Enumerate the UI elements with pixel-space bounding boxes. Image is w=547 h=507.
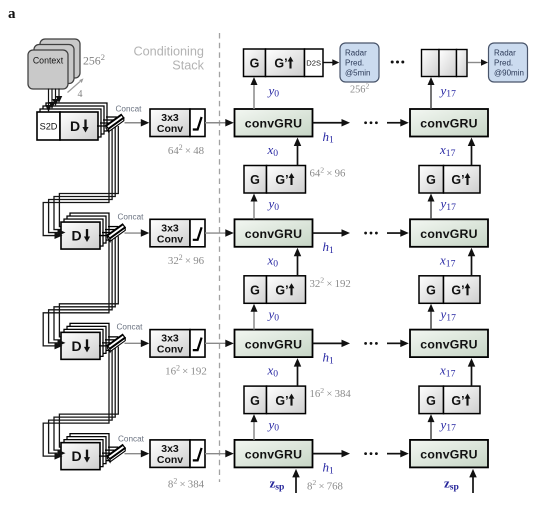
convGRU L1 [235,109,313,137]
relu box row 3 [190,330,205,358]
concat connector row 1 [106,114,124,131]
svg-text:@90min: @90min [494,69,524,78]
concat connector row 3 [107,334,125,351]
svg-text:G’: G’ [275,284,288,298]
stub wires stack 3 to concat [99,337,118,346]
y arrow R row 1 [428,77,435,109]
svg-text:convGRU: convGRU [245,227,302,241]
wire bundle from stack 2 to stack 3 [43,236,118,346]
svg-text:G’: G’ [451,284,464,298]
z_sp arrow L [292,469,300,493]
G-prime-up box R pair 2 [444,276,481,304]
D2S box [305,49,324,77]
downsampler stack row 4 back copies [64,434,109,467]
convGRU L3 [235,330,313,358]
svg-text:convGRU: convGRU [245,448,302,462]
G-prime-up box R pair 1 [444,166,481,194]
convGRU L4 [235,440,313,468]
svg-text:162 × 192: 162 × 192 [165,363,207,377]
h arrow out of convGRU L4 [313,450,351,458]
svg-text:D2S: D2S [306,58,321,67]
arrow concat to conv row 4 [125,450,150,458]
S2D box [37,112,60,140]
conditioning stack title [133,45,204,73]
concat connector row 2 [107,224,125,241]
y arrow R row 4 [428,414,435,440]
svg-text:642 × 48: 642 × 48 [168,143,205,157]
svg-text:convGRU: convGRU [420,337,477,351]
svg-text:Conv: Conv [157,233,183,245]
svg-text:convGRU: convGRU [420,117,477,131]
y arrow L row 1 [251,77,258,109]
svg-text:G’: G’ [451,394,464,408]
y arrow L row 3 [251,304,258,330]
relu box row 1 [190,109,205,137]
svg-text:G’: G’ [275,173,288,187]
x arrow R pair 2 [468,248,476,276]
svg-text:Conv: Conv [157,454,183,466]
top ellipsis [391,61,405,64]
ellipsis row 4 [364,452,378,455]
y arrow R row 2 [428,194,435,220]
G box R pair 3 [419,386,444,414]
arrow into convGRU R4 [387,450,409,458]
svg-text:convGRU: convGRU [245,117,302,131]
3x3 conv box row 2 [150,219,190,247]
svg-text:G’: G’ [275,394,288,408]
D downsample box row 1 [60,112,98,140]
svg-text:82 × 768: 82 × 768 [307,478,343,492]
wire bundle from stack 3 to stack 4 [43,347,118,457]
svg-text:Concat: Concat [117,322,144,331]
downsampler stack row 2 back copies [64,213,109,246]
convGRU R1 [410,109,488,137]
svg-text:convGRU: convGRU [420,448,477,462]
G box L pair 2 [244,276,267,304]
ellipsis row 1 [364,121,378,124]
top G-prime-up box [266,49,305,77]
svg-text:Concat: Concat [116,104,143,113]
relu box row 4 [190,440,205,468]
arrow into convGRU R3 [387,340,409,348]
y arrow L row 2 [251,194,258,220]
svg-text:Conv: Conv [157,123,183,135]
svg-text:Pred.: Pred. [345,59,364,68]
h arrow out of convGRU L3 [313,340,351,348]
svg-text:G’: G’ [451,173,464,187]
convGRU L2 [235,219,313,247]
G-prime-up box L pair 2 [267,276,306,304]
convGRU R4 [410,440,488,468]
G-prime-up box L pair 3 [267,386,306,414]
svg-text:D: D [71,448,81,464]
3x3 conv box row 4 [150,440,190,468]
svg-text:G: G [426,284,436,298]
G box L pair 1 [244,166,267,194]
wire entry arrowheads into stack 3 [55,339,66,349]
arrow relu to convGRU row 4 [205,450,234,458]
arrow into convGRU R1 [387,119,409,127]
svg-text:D: D [70,118,80,134]
3x3 conv box row 3 [150,330,190,358]
svg-text:G’: G’ [274,57,287,71]
stub wires stack 1 to concat [97,117,117,126]
svg-text:Conditioning: Conditioning [133,45,204,59]
h arrow out of convGRU L2 [313,229,351,237]
D downsample box row 4 [61,443,100,470]
svg-text:Concat: Concat [118,435,145,444]
top right frame stack [422,50,468,77]
svg-text:@5min: @5min [345,69,370,78]
svg-text:Pred.: Pred. [494,59,513,68]
wire bundle from stack 1 to stack 2 [43,126,118,236]
dashed divider line [219,33,221,482]
G box R pair 2 [419,276,444,304]
svg-text:G: G [426,173,436,187]
ellipsis row 2 [364,232,378,235]
svg-text:642 × 96: 642 × 96 [310,165,346,179]
svg-text:322 × 96: 322 × 96 [168,253,205,267]
bus width slash arrow [68,78,84,92]
downsampler stack row 1 (S2D + D) back copies [40,103,107,137]
svg-text:G: G [250,173,260,187]
svg-text:G: G [250,394,260,408]
convGRU R3 [410,330,488,358]
svg-text:G: G [426,394,436,408]
3x3 conv box row 1 [150,109,190,137]
y arrow R row 3 [428,304,435,330]
svg-text:162 × 384: 162 × 384 [310,386,352,400]
arrow relu to convGRU row 1 [205,119,234,127]
radar pred @5min box [340,43,379,82]
context to downsampler arrows [49,89,60,108]
y arrow L row 4 [251,414,258,440]
D downsample box row 2 [61,222,100,249]
svg-text:Stack: Stack [172,59,204,73]
ellipsis row 3 [364,342,378,345]
svg-text:convGRU: convGRU [245,337,302,351]
downsampler stack row 3 back copies [64,323,109,356]
z_sp arrow R [469,469,477,493]
svg-text:convGRU: convGRU [420,227,477,241]
svg-text:S2D: S2D [40,122,58,132]
x arrow L pair 2 [294,248,302,276]
svg-text:Conv: Conv [157,344,183,356]
h arrow out of convGRU L1 [313,119,351,127]
arrow concat to conv row 1 [125,119,150,127]
svg-text:322 × 192: 322 × 192 [310,276,351,290]
arrow relu to convGRU row 3 [205,340,234,348]
radar pred @90min box [489,43,528,82]
context input stack [28,39,80,89]
arrow D2S to radar1 [324,59,340,66]
svg-text:Radar: Radar [494,49,516,58]
svg-text:Context: Context [33,56,64,66]
relu box row 2 [190,219,205,247]
convGRU R2 [410,219,488,247]
arrow concat to conv row 2 [125,229,150,237]
svg-text:D: D [71,228,81,244]
top G box [244,49,266,77]
G-prime-up box L pair 1 [267,166,306,194]
arrow frames to radar2 [468,59,489,66]
G-prime-up box R pair 3 [444,386,481,414]
svg-text:Radar: Radar [345,49,367,58]
arrow concat to conv row 3 [125,340,150,348]
svg-text:a: a [8,6,16,22]
concat connector row 4 [107,445,125,462]
stub wires stack 2 to concat [99,227,118,236]
x arrow L pair 1 [294,138,302,166]
wire entry arrowheads into stack 4 [55,450,66,460]
svg-text:G: G [250,284,260,298]
D downsample box row 3 [61,332,100,359]
arrow relu to convGRU row 2 [205,229,234,237]
x arrow R pair 3 [468,358,476,386]
G box L pair 3 [244,386,267,414]
stub wires stack 4 to concat [99,447,118,456]
svg-text:4: 4 [78,89,83,100]
arrow into convGRU R2 [387,229,409,237]
svg-text:D: D [71,338,81,354]
svg-text:G: G [250,57,260,71]
x arrow L pair 3 [294,358,302,386]
wire entry arrowheads into stack 2 [55,229,66,239]
svg-text:Concat: Concat [118,212,145,221]
G box R pair 1 [419,166,444,194]
x arrow R pair 1 [468,138,476,166]
